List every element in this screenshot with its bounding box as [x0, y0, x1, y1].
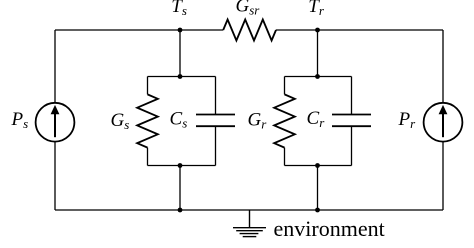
- svg-text:environment: environment: [274, 216, 385, 241]
- wire from node T_r down: [317, 30, 319, 77]
- svg-text:Cs: Cs: [170, 109, 188, 131]
- node left branch top: [178, 74, 183, 79]
- node right branch at bottom wire: [315, 208, 320, 213]
- capacitor C_r: [332, 115, 371, 127]
- wire resistor G_s lower lead: [147, 148, 149, 166]
- svg-text:Gsr: Gsr: [236, 0, 261, 18]
- ground: [233, 210, 266, 237]
- wire resistor G_r lower lead: [284, 148, 286, 166]
- arrow of P_s: [51, 105, 60, 137]
- arrow of P_r: [439, 105, 448, 137]
- svg-text:Gs: Gs: [111, 110, 130, 132]
- svg-text:Pr: Pr: [398, 109, 417, 131]
- node T_s: [178, 28, 183, 33]
- wire capacitor C_r upper lead: [351, 77, 353, 115]
- node right branch top: [315, 74, 320, 79]
- current source P_r: [424, 103, 463, 142]
- wire right lower: [442, 142, 444, 210]
- wire resistor G_s upper lead: [147, 77, 149, 95]
- resistor G_sr: [223, 20, 276, 41]
- wire from node T_s down: [179, 30, 181, 77]
- wire resistor G_r upper lead: [284, 77, 286, 95]
- wire bottom: [55, 209, 443, 211]
- capacitor C_s: [196, 115, 235, 127]
- wire left branch to bottom: [179, 166, 181, 211]
- svg-text:Tr: Tr: [308, 0, 325, 18]
- current source P_s: [36, 103, 75, 142]
- wire top rail of left branch: [148, 76, 216, 78]
- wire top-right segment: [276, 29, 443, 31]
- wire right branch to bottom: [317, 166, 319, 211]
- node right branch bottom: [315, 163, 320, 168]
- wire top-left segment: [55, 29, 223, 31]
- svg-text:Ps: Ps: [11, 109, 29, 131]
- node T_r: [315, 28, 320, 33]
- wire top rail of right branch: [285, 76, 352, 78]
- wire capacitor C_r lower lead: [351, 126, 353, 165]
- wire left lower: [54, 142, 56, 210]
- wire bottom rail of left branch: [148, 165, 216, 167]
- node left branch at bottom wire: [178, 208, 183, 213]
- wire capacitor C_s upper lead: [215, 77, 217, 115]
- node left branch bottom: [178, 163, 183, 168]
- wire left upper: [54, 30, 56, 103]
- svg-text:Cr: Cr: [307, 108, 326, 130]
- wire right upper: [442, 30, 444, 103]
- wire capacitor C_s lower lead: [215, 126, 217, 165]
- svg-text:Gr: Gr: [248, 109, 268, 131]
- resistor G_r: [274, 94, 295, 147]
- wire bottom rail of right branch: [285, 165, 352, 167]
- resistor G_s: [137, 94, 158, 147]
- svg-text:Ts: Ts: [171, 0, 187, 18]
